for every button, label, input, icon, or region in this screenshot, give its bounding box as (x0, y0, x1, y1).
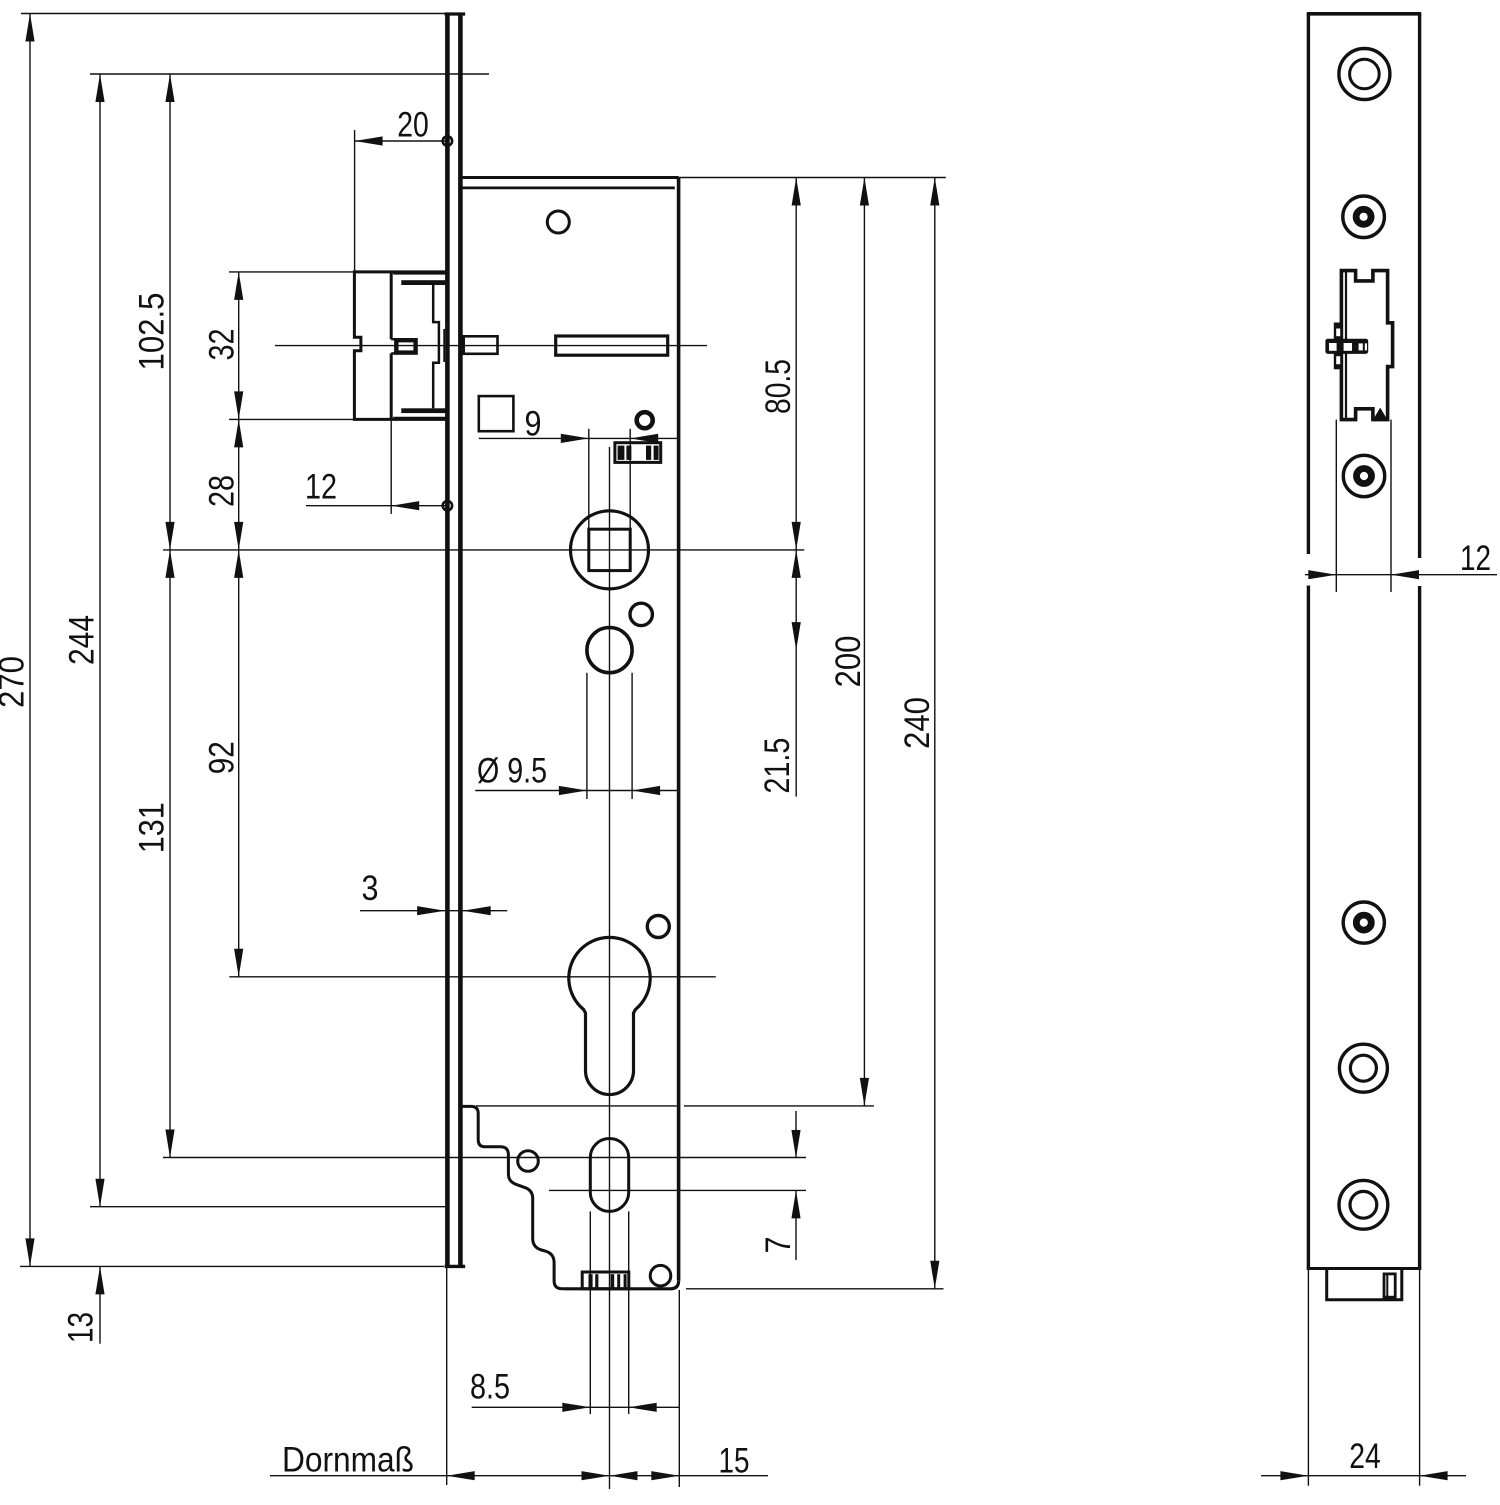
svg-text:12: 12 (1460, 539, 1491, 578)
svg-text:15: 15 (719, 1442, 750, 1481)
svg-text:200: 200 (829, 636, 868, 688)
svg-text:270: 270 (0, 656, 32, 708)
svg-text:Ø 9.5: Ø 9.5 (477, 752, 547, 791)
svg-text:32: 32 (203, 329, 242, 361)
svg-text:7: 7 (759, 1237, 798, 1254)
svg-text:24: 24 (1349, 1437, 1381, 1476)
svg-text:244: 244 (63, 615, 102, 665)
svg-text:8.5: 8.5 (470, 1367, 510, 1406)
svg-text:92: 92 (202, 741, 241, 774)
svg-text:9: 9 (525, 405, 542, 444)
svg-text:20: 20 (397, 105, 429, 144)
svg-text:3: 3 (362, 869, 379, 908)
svg-text:Dornmaß: Dornmaß (282, 1441, 414, 1480)
svg-text:102.5: 102.5 (133, 293, 172, 371)
svg-text:21.5: 21.5 (758, 738, 797, 794)
svg-text:28: 28 (203, 475, 242, 507)
svg-text:240: 240 (898, 697, 937, 749)
svg-text:131: 131 (132, 802, 171, 853)
svg-text:80.5: 80.5 (759, 359, 798, 414)
svg-text:13: 13 (62, 1312, 101, 1343)
svg-text:12: 12 (305, 468, 337, 507)
